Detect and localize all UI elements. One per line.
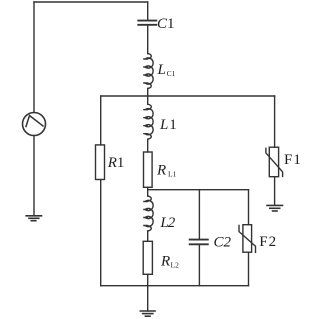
- ground (F1): [267, 205, 283, 211]
- svg-text:C1: C1: [167, 69, 176, 78]
- wire middle horizontal node: [101, 95, 275, 97]
- label L1: [159, 117, 177, 133]
- resistor R1: [96, 145, 105, 180]
- wire R1 branch top: [100, 96, 102, 145]
- inductor L1: [144, 104, 153, 139]
- wire C2 branch top: [198, 190, 200, 239]
- wire RL1 to L2 (through node): [147, 187, 149, 196]
- ground (bottom): [140, 311, 155, 316]
- wire RL2 to ground: [147, 274, 149, 311]
- label RL2: [160, 253, 179, 269]
- svg-text:R1: R1: [107, 155, 125, 171]
- wire left vertical lower: [33, 136, 35, 216]
- ground (source): [26, 216, 41, 221]
- wire bottom horizontal: [101, 285, 249, 287]
- svg-text:C1: C1: [157, 16, 175, 32]
- inductor L2: [144, 196, 153, 231]
- label LC1: [157, 62, 176, 78]
- wire C1 to LC1: [147, 26, 149, 54]
- label RL1: [156, 163, 177, 179]
- wire L2 to RL2: [147, 231, 149, 241]
- svg-text:L: L: [157, 62, 166, 78]
- wire F2 branch bottom: [248, 252, 250, 286]
- svg-text:L2: L2: [159, 215, 175, 231]
- wire F2 branch top: [248, 190, 250, 225]
- resistor RL2: [143, 241, 152, 274]
- capacitor C1: [138, 21, 156, 25]
- capacitor C2: [190, 240, 208, 245]
- svg-text:L1: L1: [168, 170, 177, 179]
- varistor F2 diagonal: [239, 226, 256, 253]
- wire F1 branch top: [274, 96, 276, 147]
- svg-text:C2: C2: [214, 234, 232, 250]
- inductor LC1: [144, 54, 153, 89]
- wire LC1 to L1 (through node): [147, 89, 149, 105]
- svg-text:R: R: [160, 253, 170, 269]
- svg-text:L2: L2: [171, 261, 180, 270]
- wire left vertical upper: [33, 2, 35, 113]
- label L2: [159, 215, 175, 231]
- label C2: [214, 234, 232, 250]
- svg-text:L1: L1: [159, 117, 177, 133]
- impulse waveform inside source: [26, 116, 43, 127]
- svg-text:R: R: [156, 163, 166, 179]
- wire R1 branch bottom: [100, 180, 102, 286]
- label R1: [107, 155, 125, 171]
- wire main branch top: [147, 2, 149, 20]
- svg-text:F2: F2: [259, 234, 277, 250]
- wire top horizontal: [34, 1, 148, 3]
- wire L1 to RL1: [147, 139, 149, 152]
- varistor F1 diagonal: [266, 148, 283, 176]
- label F1: [284, 152, 302, 168]
- varistor F2 body: [243, 225, 252, 253]
- svg-text:F1: F1: [284, 152, 302, 168]
- wire lower horizontal node: [148, 189, 249, 191]
- surge generator source circle: [23, 113, 46, 136]
- wire C2 branch bottom: [198, 245, 200, 286]
- varistor F1 body: [269, 147, 278, 177]
- resistor RL1: [144, 152, 153, 187]
- wire F1 branch bottom: [274, 177, 276, 206]
- label F2: [259, 234, 277, 250]
- label C1: [157, 16, 175, 32]
